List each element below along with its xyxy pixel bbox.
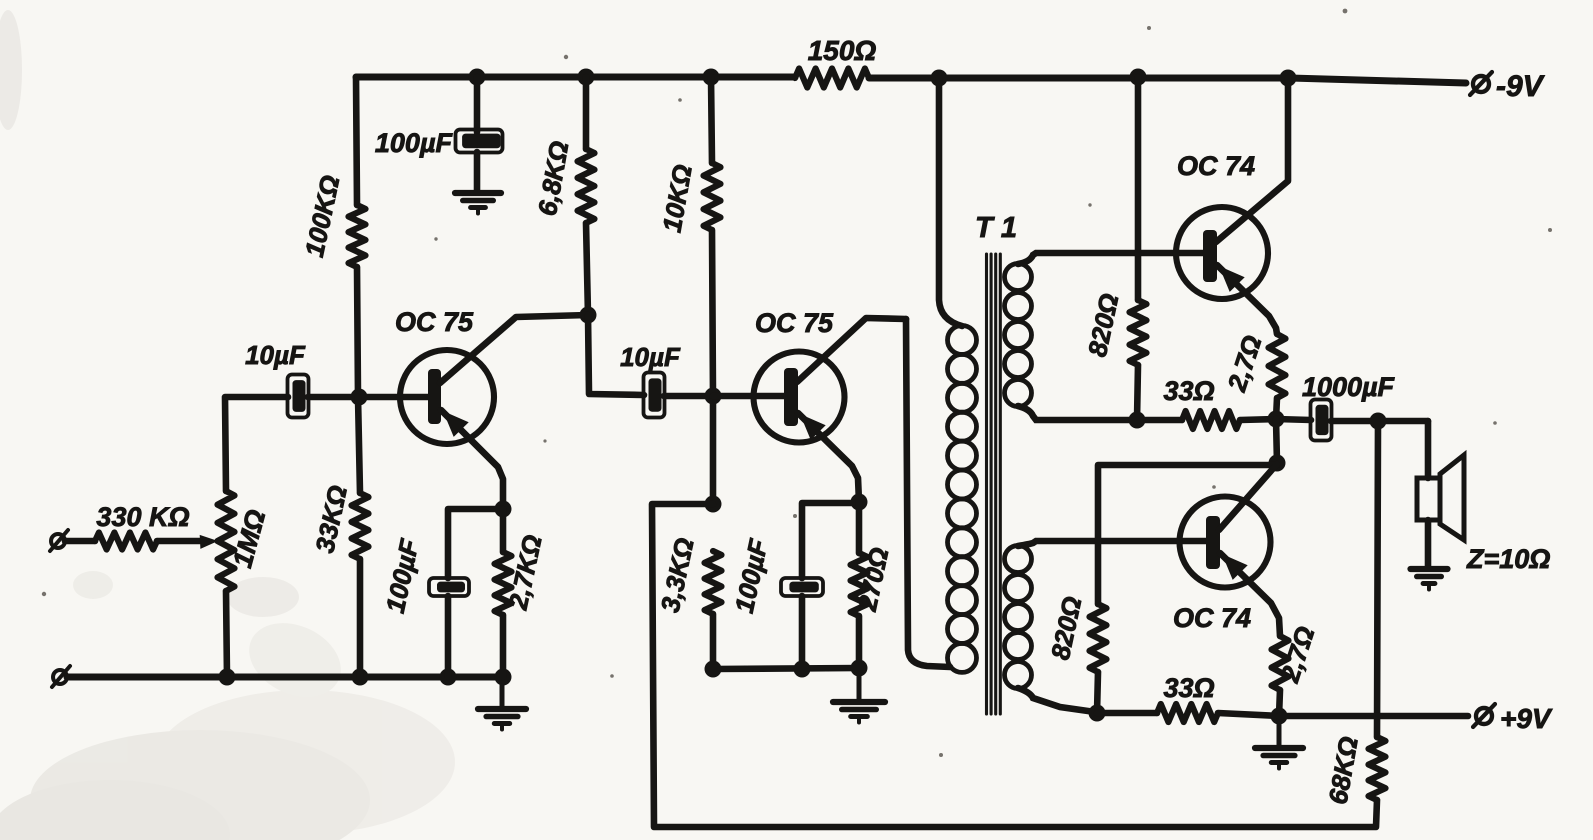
wire: +9V rail left segment [1097, 710, 1157, 717]
wire: output node down to Q4 collector node [1276, 419, 1277, 463]
wire: -9V supply rail (top) [356, 74, 795, 81]
svg-text:Z=10Ω: Z=10Ω [1466, 544, 1550, 574]
wire: +9V rail to terminal [1279, 713, 1468, 720]
wire: Q1 emitter to emitter node [441, 410, 503, 509]
junction ground bus / 1M [219, 669, 236, 686]
svg-text:10µF: 10µF [245, 340, 306, 370]
node: Q1 emitter junction [495, 501, 512, 518]
wire: Q3 collector diagonal to -9V rail [1216, 78, 1288, 242]
wire: emitter node left to 100uF (stage2) [802, 503, 859, 578]
resistor 6.8K [578, 149, 595, 223]
wire: 2.7K to ground bus [500, 615, 507, 677]
capacitor 100uF (Q1 emitter bypass) [429, 578, 469, 596]
wire: 3.3K to stage2 ground rail [710, 614, 717, 669]
speaker (driver box) [1417, 478, 1440, 520]
wire: input terminal to 330K [65, 538, 95, 545]
junction: 68K top at speaker wire [1370, 413, 1387, 430]
emitter arrow Q4 (PNP) [1222, 554, 1248, 580]
wire: -9V rail right of 150ohm to terminal [869, 78, 1466, 83]
wire: -9V rail to 6.8K [583, 77, 590, 149]
ground (below top 100uF) [455, 190, 501, 196]
wire: Q2 emitter to emitter node [798, 413, 859, 502]
wiper arrow of 1M potentiometer [200, 535, 218, 549]
wire: 6.8K to collector node [586, 223, 588, 315]
speaker cone [1440, 455, 1464, 540]
wire: 820 upper to 33ohm rail [1137, 365, 1138, 420]
wire: 1M pot bottom to ground bus [226, 591, 227, 677]
svg-text:330 KΩ: 330 KΩ [96, 502, 189, 532]
junction ground bus / 100uF [440, 669, 457, 686]
node: Q2 emitter junction [851, 494, 868, 511]
junction stage2 rail / 3.3K [705, 661, 722, 678]
transformer T1 secondary winding (lower) [1005, 546, 1032, 573]
wire: 270 to stage2 ground rail [856, 616, 863, 668]
svg-text:OC 74: OC 74 [1173, 603, 1251, 633]
wire: -9V rail corner down to 100K [356, 77, 357, 205]
resistor 820 ohm (upper bias) [1130, 300, 1147, 365]
node: output junction (emitters) [1268, 411, 1285, 428]
wire: -9V rail to 10K [711, 77, 712, 163]
wire: 33K to ground bus [357, 559, 364, 677]
wire: secondary lower top to Q4 base [1018, 541, 1206, 546]
node: base of first OC75 / 33K / 100K [351, 389, 368, 406]
svg-text:+9V: +9V [1500, 703, 1553, 734]
resistor 820 ohm (lower) [1090, 604, 1107, 672]
wire: 1M pot top to coupling cap node [225, 397, 288, 491]
wire: base node to 33K [358, 397, 360, 493]
potentiometer 1M (track) [218, 491, 235, 591]
wire: bottom ground bus [67, 674, 503, 681]
emitter arrow Q1 (PNP) [443, 411, 469, 437]
wire: 820 lower to +9V rail [1097, 672, 1098, 713]
resistor 3.3K (Q2 bias lower) [705, 551, 722, 614]
capacitor 10uF (interstage coupling) [644, 373, 665, 418]
wire: emitter node to 2.7K [500, 509, 507, 552]
transformer T1 secondary winding (upper) [1005, 264, 1032, 291]
svg-text:-9V: -9V [1496, 70, 1546, 103]
wire: 10uF to base of first OC75 [308, 394, 428, 401]
junction on -9V rail at 820ohm upper [1130, 69, 1147, 86]
transistor Q2 OC75 (circle) [754, 352, 845, 443]
wire: -9V rail to 820 upper [1135, 77, 1142, 300]
wire: emitter node left to 100uF [448, 509, 503, 578]
node: Q4 collector junction [1269, 455, 1286, 472]
resistor 10K [704, 163, 721, 230]
terminal input (ground) [53, 670, 67, 684]
terminal +9V [1476, 708, 1492, 724]
transistor Q3 OC74 (circle) [1176, 207, 1268, 299]
svg-text:10µF: 10µF [620, 342, 681, 372]
wire: Q4 collector diagonal to collector node [1219, 464, 1277, 530]
terminal input (hot) [51, 534, 65, 548]
junction on -9V rail at transformer primary [931, 70, 948, 87]
wire: 10K to base node of second OC75 [712, 230, 713, 396]
transformer T1 core [985, 254, 988, 714]
junction stage2 rail / 100uF [794, 661, 811, 678]
resistor 100K [349, 205, 366, 267]
wire: 100K to base node of first OC75 [357, 267, 358, 397]
svg-text:33Ω: 33Ω [1163, 673, 1214, 703]
wire: emitter node to 270 [856, 502, 863, 553]
transistor Q4 OC74 (circle) [1180, 497, 1271, 588]
capacitor 10uF (input coupling) [288, 375, 309, 418]
resistor 33K (bias lower) [352, 493, 369, 559]
resistor 33 ohm (upper) [1182, 411, 1240, 429]
wire: secondary upper bottom to 820 node [1018, 406, 1137, 420]
emitter arrow Q2 (PNP) [800, 414, 826, 440]
wire: 100uF to stage2 ground rail [799, 596, 806, 669]
wire: Q2 base [713, 393, 784, 400]
junction on -9V rail at 6.8K [578, 69, 595, 86]
wire: 10uF to base node of Q2 [664, 393, 713, 400]
wire: 100uF to ground [474, 152, 481, 191]
junction +9V rail / 2.7 lower [1271, 708, 1288, 725]
svg-text:OC 74: OC 74 [1177, 151, 1255, 181]
junction +9V rail / 820 lower [1089, 705, 1106, 722]
svg-text:33Ω: 33Ω [1163, 376, 1214, 406]
junction on -9V rail at 10K [703, 69, 720, 86]
junction on -9V rail at OC74 collector [1280, 70, 1297, 87]
wire: -9V rail down to primary top [939, 78, 962, 326]
junction ground bus / 2.7K [495, 669, 512, 686]
resistor 2.7 ohm (Q4 emitter) [1272, 636, 1289, 690]
wire: 100uF down to ground bus [445, 596, 452, 677]
svg-text:1000µF: 1000µF [1302, 372, 1396, 402]
wire: Q3 emitter to 2.7ohm [1217, 265, 1277, 334]
ground (below 270 ohm) [857, 674, 862, 702]
wire: Q2 collector diagonal up to transformer lead [797, 318, 906, 382]
resistor 68K (feedback) [1369, 737, 1386, 800]
wire: -9V rail down to 100uF [474, 77, 481, 132]
wire: base node down to 3.3K node [710, 396, 717, 504]
wire: speaker feed down [1425, 421, 1432, 478]
wire: Q1 collector node down/right to 10uF [588, 315, 644, 395]
wire: Q2 collector lead down to primary bottom [906, 319, 950, 667]
junction on -9V rail at 100uF [469, 69, 486, 86]
node: first stage collector junction [580, 307, 597, 324]
wire: 33ohm to output node [1240, 419, 1276, 420]
ground (speaker) [1411, 566, 1448, 572]
emitter arrow Q3 (PNP) [1219, 266, 1245, 292]
wire: speaker to ground [1425, 520, 1432, 567]
wire: Q4 emitter to 2.7ohm lower [1220, 553, 1280, 636]
node: base of Q2 / 10K [705, 388, 722, 405]
junction stage2 rail / 270 [851, 660, 868, 677]
transistor Q1 base bar [428, 369, 441, 424]
wire: 68K up to output node [1377, 421, 1378, 737]
svg-text:100µF: 100µF [375, 128, 454, 158]
junction ground bus / 33K [352, 669, 369, 686]
resistor R-150 150ohm (in -9V rail) [795, 69, 869, 88]
wire: secondary upper top to Q3 base [1018, 253, 1203, 264]
resistor 33 ohm (lower) [1157, 704, 1218, 722]
svg-text:OC 75: OC 75 [755, 308, 834, 338]
svg-text:T 1: T 1 [975, 212, 1017, 244]
ground (main, below 2.7K) [500, 683, 505, 709]
junction 33ohm rail / 820 [1129, 412, 1146, 429]
transformer T1 primary winding [948, 326, 977, 355]
wire: stage2 ground rail [713, 668, 859, 669]
transistor Q4 base bar [1206, 516, 1220, 569]
capacitor 1000uF (output coupling) [1311, 400, 1332, 441]
transistor Q3 base bar [1203, 230, 1217, 282]
resistor 2.7 ohm (Q3 emitter) [1269, 334, 1286, 398]
capacitor 100uF (decoupling, top) [456, 130, 503, 153]
resistor 270 ohm (Q2 emitter) [851, 553, 868, 616]
wire: 2.7ohm lower to +9V rail [1279, 690, 1280, 716]
wire: Q4 collector node left and down via 820 lower [1098, 465, 1277, 604]
resistor 330K (input series) [95, 533, 157, 550]
capacitor 100uF (Q2 emitter bypass) [781, 578, 823, 596]
svg-text:150Ω: 150Ω [808, 35, 877, 66]
wire: 33ohm rail from secondary to zigzag [1137, 417, 1182, 424]
wire: 3.3K node to feedback loop (left/down/bottom) [652, 504, 1377, 827]
transistor Q2 base bar [784, 368, 798, 426]
terminal -9V [1473, 76, 1489, 92]
wire: output node to 1000uF [1276, 419, 1311, 420]
node: 3.3K top junction [705, 496, 722, 513]
wire: secondary lower bottom to +9V rail [1018, 688, 1095, 712]
ground (below Q4 2.7 ohm) [1277, 720, 1282, 748]
wire: 2.7ohm to output node [1276, 398, 1277, 419]
transistor Q1 OC75 (circle) [400, 350, 494, 444]
wire: Q1 collector diagonal to 6.8K node [440, 315, 588, 383]
wire: 330K to potentiometer wiper [157, 538, 202, 545]
svg-text:OC 75: OC 75 [395, 307, 474, 337]
resistor 2.7K (Q1 emitter) [495, 552, 512, 615]
wire: 33ohm lower to 2.7 node [1218, 713, 1279, 716]
wire: 1000uF to speaker corner [1331, 418, 1428, 425]
